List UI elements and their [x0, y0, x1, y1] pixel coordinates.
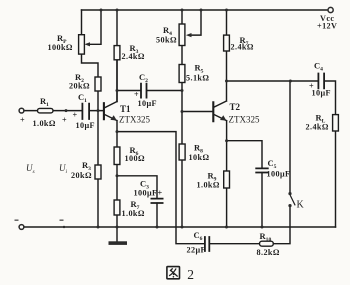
svg-text:50kΩ: 50kΩ — [156, 36, 177, 45]
svg-text:+: + — [158, 189, 163, 198]
svg-text:100kΩ: 100kΩ — [48, 43, 73, 52]
svg-text:10μF: 10μF — [312, 89, 331, 98]
svg-text:+12V: +12V — [317, 22, 337, 31]
svg-text:1.0kΩ: 1.0kΩ — [122, 209, 145, 218]
svg-text:+: + — [73, 111, 78, 120]
svg-text:K: K — [297, 200, 305, 211]
svg-text:2: 2 — [187, 267, 194, 282]
svg-text:1.0kΩ: 1.0kΩ — [33, 119, 56, 128]
svg-text:+: + — [62, 116, 67, 125]
svg-text:2.4kΩ: 2.4kΩ — [122, 52, 145, 61]
svg-text:2.4kΩ: 2.4kΩ — [306, 123, 329, 132]
svg-text:2.4kΩ: 2.4kΩ — [231, 43, 254, 52]
svg-text:20kΩ: 20kΩ — [71, 171, 92, 180]
svg-text:10kΩ: 10kΩ — [189, 153, 210, 162]
svg-text:+: + — [20, 116, 25, 125]
svg-text:T2: T2 — [230, 102, 241, 112]
svg-text:22μF: 22μF — [187, 246, 206, 255]
svg-text:T1: T1 — [120, 104, 131, 114]
svg-text:ZTX325: ZTX325 — [229, 115, 260, 125]
svg-text:ZTX325: ZTX325 — [119, 115, 150, 125]
svg-text:100Ω: 100Ω — [125, 154, 145, 163]
svg-text:8.2kΩ: 8.2kΩ — [257, 248, 280, 257]
svg-text:100μF: 100μF — [134, 189, 158, 198]
svg-text:+: + — [134, 90, 139, 99]
svg-text:1.0kΩ: 1.0kΩ — [197, 181, 220, 190]
svg-text:20kΩ: 20kΩ — [69, 82, 90, 91]
svg-text:10μF: 10μF — [138, 99, 157, 108]
svg-text:5.1kΩ: 5.1kΩ — [186, 74, 209, 83]
svg-text:10μF: 10μF — [76, 121, 95, 130]
svg-text:100μF: 100μF — [267, 170, 291, 179]
